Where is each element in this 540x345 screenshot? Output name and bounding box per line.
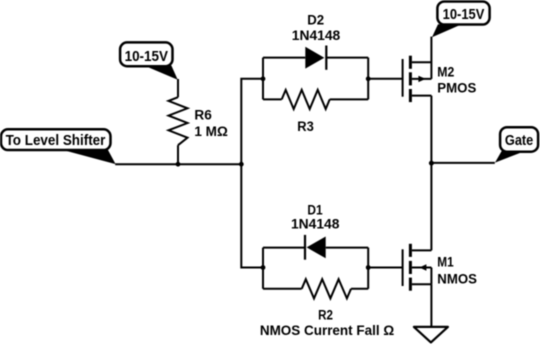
svg-text:1N4148: 1N4148	[291, 217, 340, 233]
flag Gate	[495, 127, 538, 162]
svg-text:PMOS: PMOS	[437, 81, 476, 97]
svg-text:M2: M2	[437, 65, 454, 81]
wire M2 drain down to gate node	[430, 96, 432, 163]
wire gate node to Gate flag	[431, 162, 494, 164]
node gate junction	[429, 161, 434, 166]
resistor R3	[263, 90, 368, 109]
wire lower loop right vertical	[367, 248, 369, 289]
svg-text:R3: R3	[297, 119, 314, 135]
label M2 PMOS	[437, 65, 476, 97]
transistor M2 PMOS	[403, 56, 432, 102]
svg-text:M1: M1	[437, 254, 453, 270]
flag To Level Shifter	[1, 129, 116, 164]
svg-text:10-15V: 10-15V	[125, 49, 169, 65]
svg-text:NMOS: NMOS	[437, 271, 477, 287]
wire lower loop left vertical	[262, 248, 264, 289]
wire M2 source to supply	[430, 37, 432, 79]
resistor R2	[263, 279, 368, 298]
svg-text:1 MΩ: 1 MΩ	[194, 124, 227, 140]
ground	[414, 327, 448, 343]
wire upper loop right vertical	[367, 58, 369, 100]
wire upper loop left vertical	[262, 58, 264, 100]
label R6 1 MΩ	[194, 108, 227, 140]
resistor R6	[169, 97, 188, 164]
node upper loop right	[366, 76, 371, 81]
svg-text:R6: R6	[194, 108, 212, 124]
svg-text:1N4148: 1N4148	[292, 28, 341, 44]
flag 10-15V right	[432, 2, 490, 38]
diode D2	[263, 46, 368, 70]
svg-text:To Level Shifter: To Level Shifter	[6, 133, 106, 149]
node lower loop left	[261, 265, 266, 270]
label R2	[318, 307, 333, 323]
node lower loop right	[366, 265, 371, 270]
wire M2 gate lead	[368, 78, 402, 80]
label M1 NMOS	[437, 254, 477, 287]
svg-text:D2: D2	[307, 13, 324, 29]
node R6/main junction	[176, 162, 181, 167]
wire M1 body to source	[430, 268, 432, 285]
svg-text:10-15V: 10-15V	[443, 7, 485, 23]
svg-text:R2: R2	[318, 307, 333, 323]
label NMOS Current Fall	[260, 323, 394, 339]
wire branch up	[241, 79, 263, 164]
node branch junction	[239, 162, 244, 167]
node upper loop left	[261, 76, 266, 81]
wire M1 drain up to gate node	[430, 163, 432, 251]
svg-text:Gate: Gate	[505, 133, 533, 149]
transistor M1 NMOS	[403, 244, 432, 291]
wire M1 gate lead	[368, 267, 402, 269]
label R3	[297, 119, 314, 135]
wire M1 source down	[430, 284, 432, 327]
diode D1	[263, 235, 368, 260]
wire main horizontal	[115, 163, 241, 165]
wire branch down	[241, 164, 263, 267]
svg-text:NMOS Current Fall Ω: NMOS Current Fall Ω	[260, 323, 394, 339]
wire supply lead to R6	[177, 79, 179, 97]
label D1 1N4148	[291, 202, 340, 232]
label D2 1N4148	[292, 13, 341, 44]
flag 10-15V left	[120, 42, 178, 79]
